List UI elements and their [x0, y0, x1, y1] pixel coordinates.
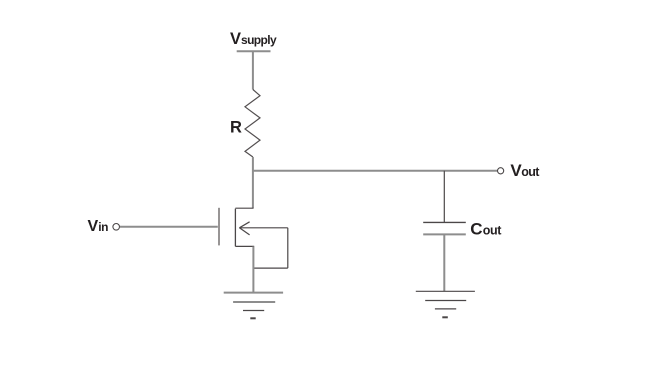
wire Vin to gate — [120, 226, 218, 228]
svg-text:in: in — [98, 220, 108, 234]
transistor Q1 source stub — [235, 245, 254, 247]
wire supply to resistor — [252, 51, 254, 89]
wire bulk loop bottom — [253, 267, 287, 269]
ground right — [416, 291, 475, 317]
resistor R1 zigzag — [245, 90, 260, 158]
transistor Q1 bulk arrow — [239, 222, 287, 235]
svg-text:out: out — [521, 165, 540, 179]
terminal Vout circle — [498, 168, 504, 174]
wire node to capacitor — [443, 171, 445, 223]
label Vin — [88, 218, 109, 235]
supply terminal bar — [237, 50, 271, 52]
transistor Q1 gate bar — [218, 208, 220, 246]
wire bulk loop right — [287, 228, 289, 268]
svg-text:out: out — [483, 224, 502, 238]
wire output node horizontal — [253, 170, 497, 172]
transistor Q1 channel bar — [234, 209, 236, 247]
ground left — [224, 293, 283, 319]
terminal Vin circle — [113, 224, 120, 231]
svg-text:C: C — [470, 220, 482, 239]
wire source to ground — [252, 246, 254, 292]
capacitor C1 bottom plate — [423, 233, 466, 235]
capacitor C1 top plate — [423, 221, 466, 223]
svg-text:supply: supply — [241, 33, 277, 47]
label Cout — [470, 220, 502, 239]
svg-text:V: V — [88, 218, 99, 235]
label Vsupply — [230, 30, 277, 48]
wire capacitor to ground — [443, 234, 445, 291]
svg-text:R: R — [230, 119, 242, 137]
transistor Q1 drain stub — [235, 207, 253, 209]
wire resistor to drain — [252, 157, 254, 208]
svg-text:V: V — [230, 30, 241, 48]
label Vout — [510, 161, 540, 180]
